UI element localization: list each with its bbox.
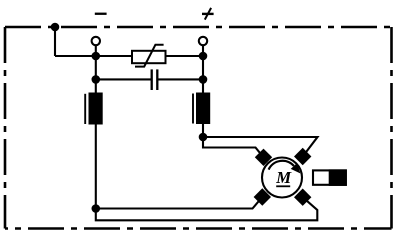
choke L2 (right suppression inductor) [193, 93, 210, 125]
wire: bottom return to SE brush [96, 197, 317, 220]
wire: brush node to NW brush [203, 137, 264, 157]
label minus (-) supply terminal [95, 13, 107, 15]
capacitor (suppression capacitor) [152, 69, 158, 90]
wire: right choke down to brush node [202, 124, 204, 138]
choke L1 (left suppression inductor) [85, 93, 103, 125]
junction: positive node [199, 52, 208, 61]
wire: right rail down to capacitor row [202, 56, 204, 79]
wire: chassis tap from frame down [54, 27, 56, 57]
label plus (+) supply terminal [202, 8, 214, 20]
wire: capacitor right lead [158, 78, 203, 80]
brush SE [294, 189, 311, 206]
wire: left rail down to capacitor row [95, 56, 97, 79]
wire: right rail to right choke [202, 79, 204, 93]
junction: bottom node [92, 204, 101, 213]
wire: left choke down to bottom node [95, 124, 97, 209]
thermal switch (half-filled box beside motor) [313, 169, 347, 186]
junction: right brush node [199, 133, 208, 142]
rotation arrow [269, 161, 301, 174]
wire: varistor to positive node [166, 55, 204, 57]
brush NW [255, 149, 272, 166]
junction: frame tap [51, 23, 60, 32]
terminal circle: positive input [199, 37, 207, 45]
wire: chassis tap to negative node [55, 55, 96, 57]
wire: bottom node to SW brush [96, 197, 262, 209]
wire: positive terminal stub [202, 45, 204, 57]
motor letter M [276, 172, 292, 186]
wire: capacitor left lead [96, 78, 151, 80]
wire: negative terminal stub [95, 45, 97, 57]
terminal circle: negative input [92, 37, 100, 45]
wire: negative node to varistor [96, 55, 132, 57]
junction: negative node [92, 52, 101, 61]
brush NE [294, 148, 311, 165]
motor M (body circle) [262, 158, 302, 198]
brush SW [254, 188, 271, 205]
wire: brush node to NE brush [203, 137, 318, 157]
varistor (suppression resistor) [132, 45, 166, 67]
junction: left capacitor node [92, 75, 101, 84]
wire: left rail to left choke [95, 79, 97, 93]
junction: right capacitor node [199, 75, 208, 84]
